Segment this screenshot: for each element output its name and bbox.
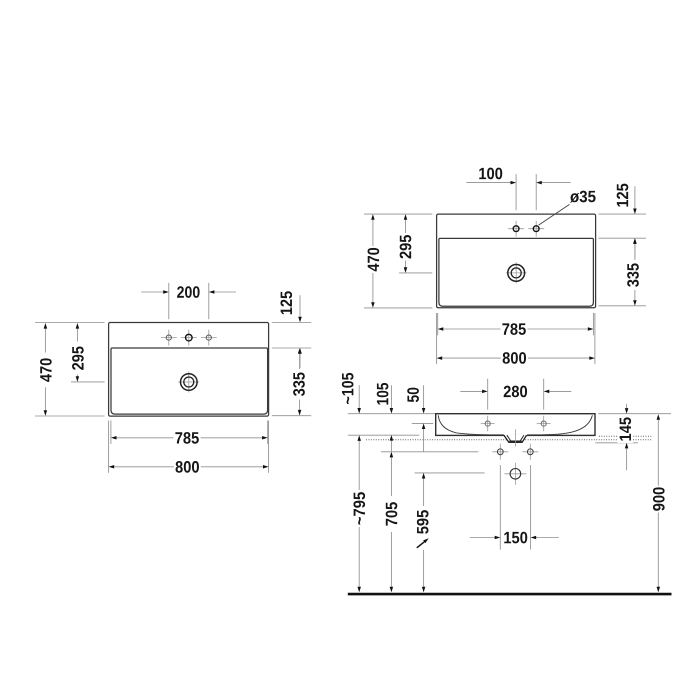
fixing hole level line	[412, 422, 433, 424]
dim 295 extension line	[399, 272, 432, 274]
lower fixing hole right circle	[527, 449, 533, 455]
rim level line right	[598, 413, 671, 415]
lower fixing hole left circle	[497, 449, 503, 455]
drain inner circle	[184, 377, 194, 387]
dim 125 line and arrows	[634, 186, 636, 258]
dim 335 line and arrows	[634, 244, 636, 300]
tap hole center crosshair	[508, 221, 524, 237]
basin body rect	[436, 414, 595, 436]
tap hole right crosshair	[201, 330, 217, 346]
dim 105 lower arrow	[390, 441, 392, 452]
dim 470 line and arrows	[44, 329, 46, 411]
tap hole left circle	[166, 335, 171, 340]
label ø35 text	[570, 191, 596, 203]
dim 280 extension lines	[488, 379, 544, 410]
fixing hole left crosshair	[481, 416, 495, 432]
dim 785 extension lines	[111, 421, 268, 444]
basin outer rim rect	[109, 323, 269, 417]
dim 100 line and arrows	[466, 182, 570, 184]
tap hole right circle	[206, 335, 211, 340]
dim 50 text	[407, 388, 419, 403]
dotted countertop level	[366, 439, 652, 441]
dim 335 text	[627, 263, 639, 287]
drain trap white mask	[504, 434, 528, 443]
dim 125 extension lines	[272, 323, 311, 349]
dim 785 text	[502, 323, 525, 335]
dim 800 line and arrows	[442, 357, 589, 359]
lower fixing level line	[381, 451, 479, 453]
dotted basin bottom level right	[599, 435, 652, 437]
dim 295 extension line	[71, 381, 105, 383]
dim 595 line and arrows	[423, 478, 425, 586]
dim 800 extension lines	[109, 421, 269, 473]
basin outer rim rect	[437, 214, 596, 308]
dim 785 line and arrows	[443, 328, 588, 330]
dim 785 text	[175, 432, 198, 444]
dim 150 extension lines	[500, 465, 530, 550]
fixing hole left circle	[485, 421, 490, 426]
dim 470 extension lines	[364, 214, 432, 308]
tap hole offset crosshair	[528, 221, 544, 237]
wall bracket level line	[348, 434, 420, 436]
dim 800 text	[176, 461, 199, 473]
dim 705 line and arrows	[390, 457, 392, 587]
dim 595 bent leader arrow	[417, 541, 426, 548]
dim 295 line and arrows	[405, 220, 407, 268]
dim 335 extension lines	[272, 415, 311, 417]
supply circle	[510, 469, 521, 480]
drain inner circle	[511, 268, 521, 278]
supply level line	[415, 472, 485, 474]
dim 125 line and arrows	[299, 295, 301, 368]
dim 150 text	[504, 532, 527, 544]
dim 335 extension line	[598, 305, 646, 307]
dim 705 text	[386, 502, 398, 525]
dim 150 line and arrows	[470, 537, 559, 539]
dim 125 extension lines	[598, 214, 646, 238]
dim 50 line and arrows	[423, 385, 425, 408]
drain trap inner slants	[507, 435, 524, 441]
basin bowl profile curve	[438, 415, 592, 435]
drain crosshair	[178, 372, 199, 393]
dim ~105 text	[342, 373, 354, 404]
drain trap bottom band	[509, 440, 521, 442]
drain trap outer	[504, 435, 527, 442]
tap hole center crosshair	[181, 330, 197, 346]
fixing hole right circle	[541, 421, 546, 426]
lower fixing hole right crosshair	[522, 444, 538, 460]
dim 125 text	[280, 291, 292, 314]
floor line	[348, 593, 672, 596]
basin inner bowl rect	[111, 348, 268, 414]
dim 470 text	[40, 358, 52, 381]
dim 295 text	[72, 346, 84, 369]
dim 200 line and arrows	[141, 291, 236, 293]
dim 800 text	[503, 352, 526, 364]
drain trap centerline	[514, 429, 516, 446]
dim 295 line and arrows	[76, 329, 78, 377]
dim 800 extension lines	[437, 313, 595, 364]
tap hole offset circle	[533, 226, 539, 232]
dim 335 text	[293, 372, 305, 396]
dim 785 line and arrows	[117, 437, 263, 439]
dim 595 text	[417, 510, 429, 534]
dim 100 extension lines	[516, 174, 536, 210]
dim 200 extension lines	[169, 283, 209, 319]
supply circle crosshair	[504, 463, 526, 485]
tap hole center circle	[513, 226, 519, 232]
dim 335 line and arrows	[299, 354, 301, 410]
drain crosshair	[506, 262, 527, 283]
label ø35 leader	[539, 204, 570, 225]
drain outer circle	[181, 374, 198, 391]
tap hole center circle	[186, 334, 193, 341]
drain outer circle	[508, 265, 525, 282]
dim 470 line and arrows	[372, 220, 374, 303]
basin inner bowl rect	[439, 238, 594, 306]
dim 200 text	[177, 286, 200, 298]
dim 105 line and arrows	[390, 385, 392, 408]
dim 50 lower arrow	[423, 429, 425, 452]
dim 145 text	[618, 416, 634, 444]
tap hole left crosshair	[161, 330, 177, 346]
fixing hole right crosshair	[537, 416, 551, 432]
dim 800 line and arrows	[114, 466, 263, 468]
dim 280 text	[504, 386, 527, 398]
dim 100 text	[479, 168, 502, 180]
lower fixing hole left crosshair	[492, 444, 508, 460]
dim 470 extension lines	[35, 323, 105, 417]
dim 295 text	[400, 235, 412, 258]
dim 125 text	[617, 184, 629, 207]
dim ~795 text	[353, 492, 365, 524]
dim 785 extension lines	[438, 313, 594, 335]
dim 145 line and arrows	[626, 404, 628, 408]
dim 900 line and arrows	[657, 420, 659, 587]
siphon cover level line	[595, 442, 638, 444]
dim 105 text	[377, 383, 389, 405]
dim ~105 line and arrows	[358, 385, 360, 408]
dim 470 text	[368, 248, 380, 271]
rim level line left	[348, 413, 436, 415]
dim 280 line and arrows	[460, 390, 571, 392]
dim 900 text	[653, 487, 665, 510]
dim ~795 line and arrows	[358, 441, 360, 587]
